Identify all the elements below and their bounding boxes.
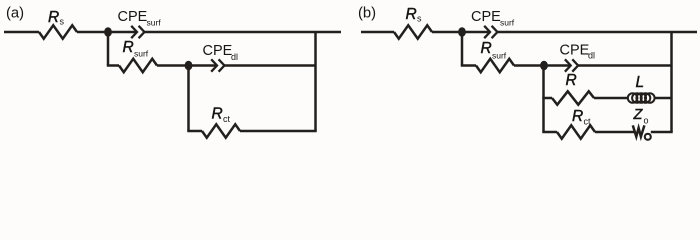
- warburg W_o symbol (b): [633, 125, 645, 136]
- label Rct (b): [572, 108, 591, 127]
- label R (b): [566, 72, 577, 89]
- wire: bottom branch start (a): [187, 130, 202, 133]
- label CPEdl (a): [203, 43, 239, 62]
- svg-text:surf: surf: [134, 49, 149, 59]
- svg-text:surf: surf: [147, 18, 162, 28]
- svg-text:R: R: [572, 108, 583, 125]
- svg-text:o: o: [644, 116, 649, 126]
- wire: L to right vertical (b): [655, 97, 672, 100]
- label Rs (b): [406, 6, 423, 24]
- wire: node A1 vertical drop: [107, 32, 110, 66]
- svg-text:surf: surf: [492, 51, 507, 61]
- wire: (a) left terminal to R_s: [4, 31, 39, 34]
- capacitor CPE_dl (b) chevron 1: [565, 59, 571, 71]
- wire: R_ct to right vertical (a): [240, 130, 317, 133]
- capacitor CPE_dl (b) chevron 2: [572, 59, 578, 71]
- svg-text:ct: ct: [223, 114, 231, 124]
- svg-text:CPE: CPE: [471, 9, 501, 25]
- label CPEsurf (b): [471, 9, 515, 28]
- resistor R (b): [552, 91, 594, 104]
- wire: mid branch start (a): [107, 64, 119, 67]
- wire: (b) left terminal to R_s: [361, 31, 394, 34]
- svg-text:CPE: CPE: [118, 9, 148, 25]
- node A1 junction dot: [104, 27, 112, 37]
- capacitor CPE_dl (a) chevron 2: [219, 59, 225, 71]
- wire: node A2 vertical drop: [187, 66, 190, 132]
- node B2 junction dot: [540, 61, 548, 71]
- svg-text:s: s: [417, 14, 422, 24]
- capacitor CPE_surf (a) chevron 2: [139, 26, 145, 38]
- wire: right vertical bus (b): [670, 32, 673, 132]
- resistor Rs (a): [39, 25, 77, 38]
- svg-text:dl: dl: [231, 52, 238, 62]
- capacitor CPE_dl (a) chevron 1: [211, 59, 217, 71]
- wire: Rs to CPEsurf (b): [432, 31, 490, 34]
- node A2 junction dot: [185, 61, 193, 71]
- inductor L coil (b): [628, 93, 655, 103]
- label Rs (a): [48, 9, 65, 27]
- svg-text:R: R: [566, 72, 577, 89]
- svg-text:dl: dl: [588, 51, 595, 61]
- wire: R to inductor L (b): [594, 97, 628, 100]
- svg-text:surf: surf: [500, 18, 515, 28]
- label CPEdl (b): [560, 43, 596, 61]
- svg-text:CPE: CPE: [203, 43, 233, 59]
- resistor R_ct (a): [202, 124, 240, 137]
- label Rsurf (a): [123, 39, 149, 59]
- wire: R_ct to Warburg (b): [595, 131, 635, 134]
- svg-text:ct: ct: [584, 117, 592, 127]
- svg-text:R: R: [481, 40, 492, 57]
- capacitor CPE_surf (b) chevron 2: [492, 26, 498, 38]
- resistor R_surf (b): [476, 59, 514, 72]
- label Rsurf (b): [481, 40, 507, 61]
- wire: mid branch start (b): [461, 64, 476, 67]
- warburg W_o subscript O ring: [645, 134, 651, 140]
- resistor R_surf (a): [119, 59, 157, 72]
- wire: node B2 vertical drop: [542, 66, 545, 133]
- svg-text:(b): (b): [358, 6, 376, 22]
- wire: CPE_dl to right vertical (b): [578, 64, 671, 67]
- wire: CPEsurf to right end (b): [497, 31, 697, 34]
- label Rct (a): [212, 106, 231, 125]
- wire: right vertical bus (a): [314, 32, 317, 131]
- svg-text:R: R: [123, 39, 134, 56]
- svg-text:Z: Z: [633, 107, 644, 123]
- wire: Rs to CPEsurf (a): [77, 31, 137, 34]
- label L (b): [636, 74, 645, 91]
- label Zo (b): [633, 107, 649, 126]
- svg-text:R: R: [406, 6, 417, 23]
- svg-text:R: R: [48, 9, 59, 26]
- wire: Warburg to right vertical (b): [651, 131, 673, 134]
- resistor R_ct (b): [557, 125, 595, 138]
- svg-text:L: L: [636, 74, 645, 91]
- wire: R_surf to CPE_dl (b): [514, 64, 571, 67]
- label CPEsurf (a): [118, 9, 162, 28]
- node B1 junction dot: [458, 27, 466, 37]
- wire: node B1 vertical drop: [461, 32, 464, 66]
- wire: CPE_dl to right vertical (a): [224, 64, 315, 67]
- svg-text:CPE: CPE: [560, 43, 590, 59]
- wire: bottom branch start (b): [542, 131, 557, 134]
- capacitor CPE_surf (a) chevron 1: [131, 26, 137, 38]
- svg-text:(a): (a): [6, 6, 24, 22]
- svg-text:R: R: [212, 106, 223, 123]
- wire: RL branch start (b): [542, 97, 552, 100]
- resistor Rs (b): [394, 25, 432, 38]
- wire: R_surf to CPE_dl (a): [157, 64, 217, 67]
- wire: CPEsurf to right end (a): [144, 31, 341, 34]
- capacitor CPE_surf (b) chevron 1: [484, 26, 490, 38]
- svg-text:s: s: [60, 17, 65, 27]
